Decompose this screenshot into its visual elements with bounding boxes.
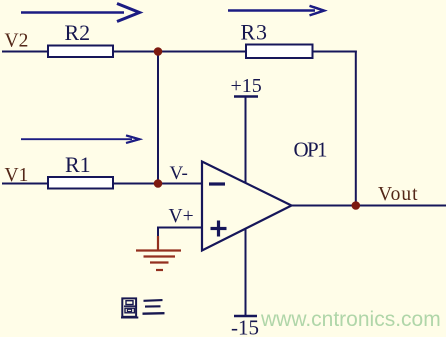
svg-text:Vout: Vout (378, 184, 418, 205)
svg-text:R3: R3 (241, 20, 268, 45)
svg-text:V-: V- (170, 163, 188, 184)
svg-text:www.cntronics.com: www.cntronics.com (260, 308, 441, 331)
svg-text:V2: V2 (5, 31, 29, 52)
svg-text:+15: +15 (231, 75, 262, 97)
svg-text:R2: R2 (65, 20, 91, 45)
svg-text:OP1: OP1 (294, 138, 328, 162)
svg-text:-15: -15 (231, 316, 259, 337)
svg-text:R1: R1 (65, 152, 91, 177)
svg-text:V+: V+ (169, 206, 194, 227)
svg-text:V1: V1 (5, 165, 29, 186)
